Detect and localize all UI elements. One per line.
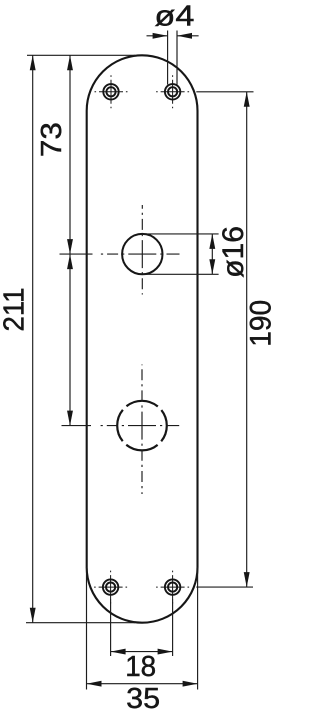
- svg-text:211: 211: [0, 288, 31, 332]
- svg-text:ø16: ø16: [217, 226, 250, 278]
- svg-text:35: 35: [126, 683, 160, 715]
- svg-text:73: 73: [36, 122, 68, 157]
- svg-text:190: 190: [245, 300, 278, 347]
- svg-text:18: 18: [125, 651, 156, 683]
- svg-text:ø4: ø4: [154, 1, 194, 33]
